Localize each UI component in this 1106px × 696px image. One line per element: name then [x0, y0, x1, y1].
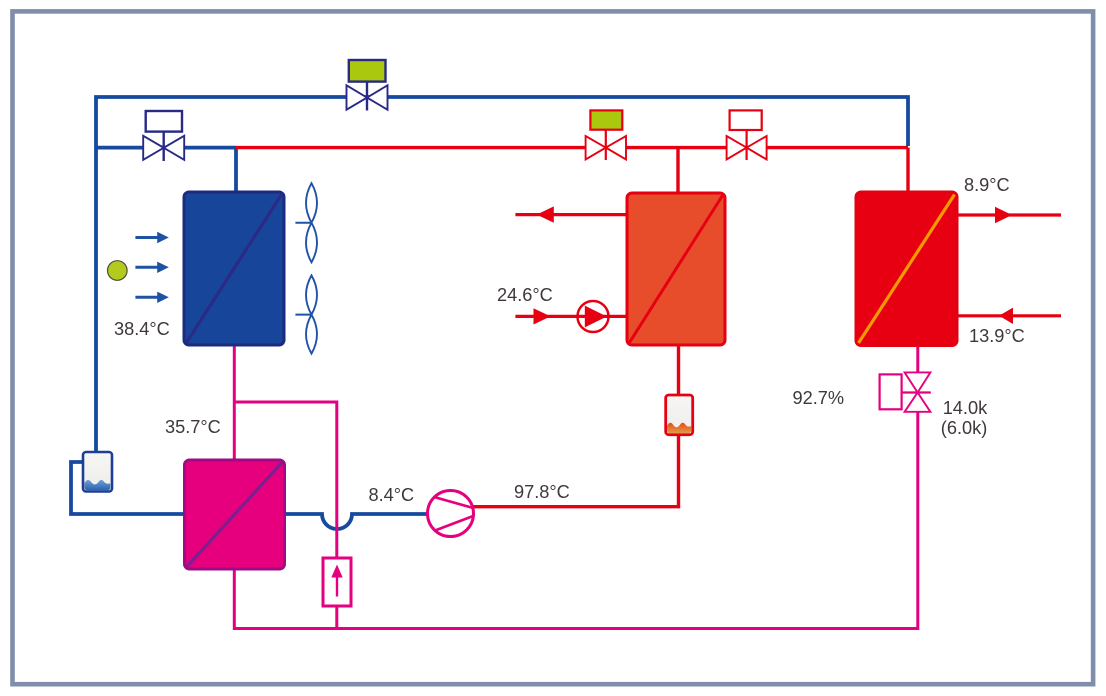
red arrow out left-top: [515, 206, 626, 222]
svg-text:(6.0k): (6.0k): [941, 418, 988, 438]
tank blue (receiver): [83, 452, 112, 492]
wire blue drop to evaporator: [234, 148, 238, 193]
red arrow in right-bottom: [957, 308, 1062, 324]
wire magenta bottom return line: [234, 412, 918, 629]
svg-text:14.0k: 14.0k: [943, 398, 988, 418]
wire magenta evaporator to hx: [233, 345, 236, 461]
fan 1: [295, 183, 317, 262]
wire magenta flow meter to bottom: [335, 605, 338, 629]
wire red main top line: [236, 146, 908, 149]
svg-text:8.4°C: 8.4°C: [369, 485, 415, 505]
air arrow 2: [135, 262, 168, 273]
flow meter (magenta box with up arrow): [323, 558, 351, 606]
wire magenta branch to flow meter: [234, 402, 336, 559]
red arrow out right-top: [957, 207, 1062, 223]
heat exchanger magenta: [185, 460, 285, 569]
valve blue left (with white actuator box): [143, 111, 184, 161]
heat exchanger orange (middle): [627, 193, 725, 345]
sensor green circle: [108, 261, 128, 281]
pump red small (circle with triangle): [578, 301, 609, 332]
svg-text:38.4°C: 38.4°C: [114, 319, 170, 339]
svg-text:97.8°C: 97.8°C: [514, 482, 570, 502]
wire blue outer loop top: [96, 97, 908, 453]
wire blue suction line with hop: [283, 514, 428, 529]
wire blue tank elbow: [71, 462, 186, 514]
heat exchanger blue (evaporator): [184, 192, 284, 345]
red arrow in left-bottom: [515, 308, 626, 324]
svg-text:35.7°C: 35.7°C: [165, 417, 221, 437]
wire red discharge line: [474, 345, 679, 507]
valve red 1 (green actuator box): [586, 110, 626, 160]
fan 2: [295, 275, 317, 353]
valve magenta expansion (vertical, white box at left): [880, 372, 931, 411]
tank red (receiver): [666, 395, 693, 435]
air arrow 1: [135, 232, 168, 243]
valve red 2 (white actuator box): [727, 110, 767, 160]
svg-text:13.9°C: 13.9°C: [969, 326, 1025, 346]
svg-text:24.6°C: 24.6°C: [497, 285, 553, 305]
heat exchanger red (right): [856, 192, 957, 346]
svg-text:92.7%: 92.7%: [793, 388, 845, 408]
wire magenta valve to right hx: [916, 345, 919, 373]
wire red drop to right hx: [906, 148, 909, 193]
pump compressor (magenta circle): [428, 491, 474, 537]
wire red drop to middle hx: [676, 148, 679, 194]
air arrow 3: [135, 292, 168, 303]
valve blue top (with green actuator box): [347, 60, 388, 111]
wire blue second line left: [96, 146, 236, 150]
svg-text:8.9°C: 8.9°C: [964, 175, 1010, 195]
